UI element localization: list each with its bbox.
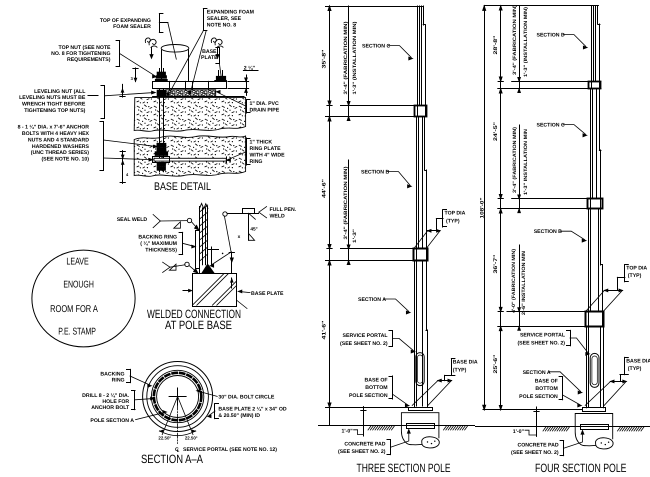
four section pole: top cap bbox=[591, 5, 598, 7]
grade hatch left of foundation bbox=[368, 426, 371, 430]
three section pole: section C shaft bbox=[417, 6, 419, 117]
svg-text:& 20.50" (MIN) ID: & 20.50" (MIN) ID bbox=[218, 413, 260, 419]
svg-text:1'-3": 1'-3" bbox=[352, 229, 358, 243]
svg-text:SECTION B: SECTION B bbox=[361, 170, 389, 176]
three section pole: service portal oval bbox=[416, 353, 424, 386]
leader: section A bbox=[385, 299, 409, 311]
leader: service portal bbox=[392, 331, 394, 346]
dimension line: section heights (three section pole) bbox=[329, 6, 331, 426]
leader: section B bbox=[388, 172, 411, 186]
leader: ring plate bbox=[246, 138, 248, 165]
leader: drain pipe bbox=[246, 100, 248, 114]
base detail: concrete upper band bbox=[134, 98, 245, 132]
three section pole: splice joint B-A bbox=[414, 249, 428, 261]
dimension: base plate thickness 2 1/4 in bbox=[228, 81, 249, 83]
leader: section A (four) bbox=[549, 372, 581, 392]
leader: anchor bolts bbox=[103, 122, 105, 171]
welded connection: base plate diagonal hatch bbox=[192, 274, 223, 305]
svg-text:POLE SECTION A: POLE SECTION A bbox=[90, 418, 134, 424]
section A-A: 22.5 degree wedge lines bbox=[162, 397, 177, 435]
welded connection: pole wall hatching bbox=[200, 205, 208, 212]
base detail: grout pad under base plate bbox=[166, 90, 216, 97]
three section pole: top cap bbox=[417, 6, 424, 8]
four section pole: base plate bbox=[583, 408, 606, 412]
svg-text:(SEE SHEET NO. 2): (SEE SHEET NO. 2) bbox=[517, 340, 565, 346]
weld symbol: seal weld upper callout bbox=[153, 215, 160, 222]
svg-text:BASE PLATE: BASE PLATE bbox=[251, 291, 284, 297]
svg-text:1'-3" INSTALLATION MIN: 1'-3" INSTALLATION MIN bbox=[523, 128, 529, 195]
svg-text:45°: 45° bbox=[250, 227, 257, 233]
svg-text:BASE OF: BASE OF bbox=[535, 378, 558, 384]
splice line B-A lower (four) bbox=[498, 326, 604, 328]
svg-text:BACKING RING: BACKING RING bbox=[138, 235, 177, 241]
four section pole: section B shaft bbox=[588, 209, 590, 327]
leader: drill holes bbox=[134, 391, 136, 410]
svg-text:44'-6": 44'-6" bbox=[321, 178, 327, 198]
svg-text:FULL PEN.: FULL PEN. bbox=[270, 207, 297, 213]
svg-text:POLE SECTION: POLE SECTION bbox=[519, 394, 558, 400]
svg-text:POLE SECTION: POLE SECTION bbox=[349, 393, 388, 399]
concrete pad bar (three section pole) bbox=[407, 424, 435, 429]
section A-A: base plate outer circle bbox=[143, 362, 213, 432]
base detail: expanding foam sealer squiggle left bbox=[145, 38, 157, 48]
welded connection: base plate slab bbox=[193, 274, 237, 307]
leader: concrete pad bbox=[390, 440, 392, 455]
svg-text:ANCHOR BOLT: ANCHOR BOLT bbox=[91, 405, 130, 411]
svg-text:22.50°: 22.50° bbox=[185, 436, 198, 441]
svg-text:BOTTOM: BOTTOM bbox=[535, 386, 557, 392]
leader: top nut bbox=[119, 41, 121, 66]
dimension: wall thickness ticks bbox=[208, 249, 219, 251]
four section pole: splice joint D-C bbox=[589, 82, 601, 89]
base detail: ring plate with washer block bbox=[154, 158, 226, 161]
extension line: pole top to dim lines bbox=[484, 5, 591, 7]
base detail: anchor bolt lower end bbox=[159, 162, 161, 171]
leader: bolt circle bbox=[198, 391, 217, 396]
svg-text:(SEE SHEET NO. 2): (SEE SHEET NO. 2) bbox=[340, 341, 388, 347]
svg-text:1" THICK: 1" THICK bbox=[250, 140, 273, 146]
leader: section D bbox=[563, 35, 586, 47]
weld symbol: full pen weld circle and leader bbox=[223, 212, 227, 216]
leader chevron: full pen weld bbox=[259, 207, 267, 213]
svg-text:SECTION A: SECTION A bbox=[523, 370, 551, 376]
leader: weld circle to joint bbox=[224, 216, 231, 252]
concrete pad bar (four section pole) bbox=[581, 425, 609, 430]
projection lines: base dia bbox=[412, 381, 438, 406]
dimension line: splice overlap B-A bbox=[348, 160, 350, 261]
base detail: left anchor bolt top nut bbox=[159, 69, 161, 75]
svg-text:24'-5": 24'-5" bbox=[493, 121, 499, 141]
svg-text:1'-3" (INSTALLATION MIN): 1'-3" (INSTALLATION MIN) bbox=[523, 7, 529, 77]
leader: expanding foam sealer (two arrows) bbox=[203, 9, 205, 31]
rock blob in foundation (four) bbox=[596, 438, 614, 449]
section A-A: backing ring dashed dark ring bbox=[154, 373, 201, 420]
svg-text:LEVELING NUTS MUST BE: LEVELING NUTS MUST BE bbox=[19, 95, 86, 101]
svg-text:35'-8": 35'-8" bbox=[321, 49, 327, 69]
svg-text:4'-0" (FABRICATION MIN): 4'-0" (FABRICATION MIN) bbox=[511, 249, 517, 313]
dimension line: splice overlap B-A (four) bbox=[519, 245, 521, 327]
svg-text:HARDENED WASHERS: HARDENED WASHERS bbox=[32, 144, 90, 150]
leader: base of bottom pole section bbox=[392, 376, 394, 399]
section A-A: pole wall circle inner bbox=[157, 376, 199, 418]
grade hatch right of foundation (four) bbox=[618, 427, 621, 431]
svg-text:3'-4" (FABRICATION MIN): 3'-4" (FABRICATION MIN) bbox=[512, 5, 518, 75]
leader: base plate bbox=[219, 48, 221, 64]
svg-text:CONCRETE PAD: CONCRETE PAD bbox=[517, 443, 558, 449]
base detail: anchor bolt rod with leveling nuts bbox=[159, 89, 161, 158]
svg-text:(SEE SHEET NO. 2): (SEE SHEET NO. 2) bbox=[511, 450, 559, 456]
grade hatch left of foundation (four) bbox=[543, 427, 546, 431]
svg-text:3'-4" (FABRICATION MIN): 3'-4" (FABRICATION MIN) bbox=[343, 166, 349, 240]
svg-text:P.E. STAMP: P.E. STAMP bbox=[58, 326, 96, 337]
projection lines: top dia (four) bbox=[586, 290, 605, 311]
four section pole: splice joint B-A bbox=[586, 312, 604, 327]
svg-text:(TYP): (TYP) bbox=[446, 218, 460, 224]
three section pole: section B shaft bbox=[416, 117, 418, 261]
four section pole: section C shaft bbox=[590, 89, 592, 209]
svg-text:(SEE NOTE NO. 10): (SEE NOTE NO. 10) bbox=[41, 157, 89, 163]
svg-text:REQUIREMENTS): REQUIREMENTS) bbox=[67, 57, 111, 63]
svg-text:1'-0": 1'-0" bbox=[513, 429, 525, 435]
svg-text:FOUR SECTION POLE: FOUR SECTION POLE bbox=[535, 461, 627, 475]
svg-text:AT POLE BASE: AT POLE BASE bbox=[165, 318, 232, 332]
welded connection: full penetration weld (filled) bbox=[202, 264, 214, 273]
svg-text:WELD: WELD bbox=[270, 214, 286, 220]
svg-text:CONCRETE PAD: CONCRETE PAD bbox=[344, 442, 385, 448]
svg-text:ENOUGH: ENOUGH bbox=[63, 280, 94, 291]
splice line D-C upper bbox=[512, 81, 601, 83]
leader: base plate size bbox=[214, 404, 216, 419]
svg-text:BASE DETAIL: BASE DETAIL bbox=[154, 181, 211, 193]
splice line B-A upper bbox=[341, 248, 428, 250]
svg-text:22.50°: 22.50° bbox=[158, 436, 171, 441]
extension line: base of pole level bbox=[326, 407, 410, 409]
svg-text:4: 4 bbox=[126, 172, 129, 177]
section A-A: center cross bbox=[169, 396, 186, 398]
svg-text:SEALER, SEE: SEALER, SEE bbox=[207, 16, 242, 22]
P.E. stamp circle bbox=[32, 250, 135, 347]
leader and dim: base dia (four) bbox=[624, 357, 626, 374]
ground line at four section pole bbox=[476, 426, 650, 428]
svg-text:( ¼" MAXIMUM: ( ¼" MAXIMUM bbox=[140, 241, 177, 247]
three section pole: base plate bbox=[409, 408, 433, 411]
splice line D-C lower bbox=[498, 88, 601, 90]
base detail: expanding foam sealer squiggle right bbox=[211, 38, 223, 48]
dimension: weld height arrow bbox=[231, 252, 233, 274]
svg-text:41'-6": 41'-6" bbox=[321, 320, 327, 340]
svg-text:108'-0": 108'-0" bbox=[479, 197, 485, 219]
base detail: foam sealer arrow right bbox=[217, 48, 219, 55]
svg-text:NOTE NO. 8: NOTE NO. 8 bbox=[207, 23, 237, 29]
dimension line: overall height (four section pole) bbox=[484, 6, 486, 410]
section A-A: service portal centerline (dashed) bbox=[177, 405, 179, 444]
svg-text:WITH 4" WIDE: WITH 4" WIDE bbox=[250, 152, 286, 158]
svg-text:(UNC THREAD SERIES): (UNC THREAD SERIES) bbox=[31, 150, 89, 156]
svg-text:SECTION B: SECTION B bbox=[534, 229, 562, 235]
svg-text:HOLE FOR: HOLE FOR bbox=[102, 399, 129, 405]
svg-text:THREE SECTION POLE: THREE SECTION POLE bbox=[357, 461, 451, 475]
welded connection: pole wall plates bbox=[199, 207, 201, 274]
leader and dim: top dia (four) bbox=[624, 265, 626, 282]
dimension line: splice overlap D-C bbox=[519, 6, 521, 89]
extension line: base of pole level (four) bbox=[483, 409, 582, 411]
svg-text:8 - 1 ¼" DIA. x 7'-6" ANCHOR: 8 - 1 ¼" DIA. x 7'-6" ANCHOR bbox=[18, 125, 90, 131]
svg-text:36'-7": 36'-7" bbox=[493, 254, 499, 274]
leader: concrete pad (four) bbox=[563, 441, 565, 456]
svg-text:LEVELING NUT (ALL: LEVELING NUT (ALL bbox=[34, 89, 86, 95]
svg-text:RING: RING bbox=[250, 159, 263, 165]
four section pole: splice joint C-B bbox=[588, 199, 603, 209]
svg-text:(TYP): (TYP) bbox=[628, 366, 642, 372]
leader: backing ring bbox=[182, 232, 184, 254]
svg-text:(TYP): (TYP) bbox=[628, 273, 642, 279]
splice line C-B lower bbox=[326, 116, 427, 118]
svg-text:30" DIA. BOLT CIRCLE: 30" DIA. BOLT CIRCLE bbox=[218, 395, 275, 401]
svg-text:RING: RING bbox=[112, 378, 125, 384]
svg-text:TOP DIA: TOP DIA bbox=[626, 265, 647, 271]
svg-text:BOTTOM: BOTTOM bbox=[365, 385, 387, 391]
dimension line: section heights (four section pole) bbox=[500, 6, 502, 410]
svg-text:LEAVE: LEAVE bbox=[66, 256, 89, 267]
svg-text:x: x bbox=[238, 235, 241, 240]
svg-text:SEAL WELD: SEAL WELD bbox=[117, 217, 148, 223]
svg-text:TIGHTENING TOP NUTS): TIGHTENING TOP NUTS) bbox=[24, 108, 85, 114]
svg-text:EXPANDING FOAM: EXPANDING FOAM bbox=[207, 10, 254, 16]
dimension line: splice overlap C-B (four) bbox=[519, 125, 521, 209]
leader and dim: top dia bbox=[442, 210, 444, 227]
leader: leveling nut bbox=[104, 86, 106, 119]
three section pole: section A shaft bbox=[414, 261, 416, 408]
foundation outline (four section pole) bbox=[575, 414, 613, 446]
svg-text:THICKNESS): THICKNESS) bbox=[145, 247, 177, 253]
svg-text:NO. 8 FOR TIGHTENING: NO. 8 FOR TIGHTENING bbox=[51, 51, 110, 57]
svg-text:BASE OF: BASE OF bbox=[365, 378, 388, 384]
foundation outline (three section pole) bbox=[401, 413, 439, 445]
four section pole: service portal oval bbox=[590, 353, 599, 387]
base detail: foam sealer arrow left bbox=[151, 48, 153, 55]
dimension: ring plate small arrows bbox=[122, 151, 124, 184]
dimension: grout thickness small arrows bbox=[135, 68, 137, 81]
extension ticks at plate bottom bbox=[237, 301, 247, 309]
svg-text:WRENCH TIGHT BEFORE: WRENCH TIGHT BEFORE bbox=[22, 102, 86, 108]
welded connection: backing ring bar bbox=[196, 231, 200, 269]
leader: section B (four) bbox=[560, 231, 584, 239]
svg-text:SECTION A: SECTION A bbox=[358, 297, 386, 303]
svg-text:BASE PLATE 2 ¼" x 34" OD: BASE PLATE 2 ¼" x 34" OD bbox=[218, 406, 286, 412]
dimension line: splice overlap C-B bbox=[348, 6, 350, 117]
section A-A: angle arc bbox=[160, 431, 196, 436]
section A-A: ring plate circle bbox=[147, 366, 209, 428]
svg-text:PLATE: PLATE bbox=[201, 55, 218, 61]
svg-text:DRAIN PIPE: DRAIN PIPE bbox=[250, 108, 280, 114]
svg-text:ROOM FOR A: ROOM FOR A bbox=[50, 304, 98, 315]
leader: top of foam sealer bbox=[159, 14, 161, 33]
projection lines: top dia bbox=[414, 231, 428, 249]
svg-text:BACKING: BACKING bbox=[100, 371, 124, 377]
leader: section C bbox=[389, 46, 412, 58]
dimension: plate thickness tick below bbox=[231, 278, 233, 288]
svg-text:1'-0": 1'-0" bbox=[341, 428, 353, 434]
projection lines: base dia (four) bbox=[585, 381, 610, 405]
svg-text:3: 3 bbox=[131, 76, 134, 81]
svg-text:SERVICE PORTAL: SERVICE PORTAL bbox=[343, 333, 389, 339]
welded connection: pole wall break line (jagged top) bbox=[199, 203, 208, 208]
four section pole: section A shaft bbox=[586, 327, 588, 408]
base detail: concrete lower band bbox=[134, 136, 245, 177]
leader and dim: base dia bbox=[451, 359, 453, 375]
svg-text:1" DIA. PVC: 1" DIA. PVC bbox=[250, 101, 280, 107]
svg-text:1'-3" (INSTALLATION MIN): 1'-3" (INSTALLATION MIN) bbox=[352, 21, 358, 94]
svg-text:FOAM SEALER: FOAM SEALER bbox=[113, 24, 151, 30]
svg-text:(TYP): (TYP) bbox=[453, 368, 467, 374]
splice line C-B upper bbox=[341, 105, 427, 107]
leader: section C (four) bbox=[563, 125, 585, 135]
svg-text:DRILL 8 - 2 ¼" DIA.: DRILL 8 - 2 ¼" DIA. bbox=[82, 393, 130, 399]
leader: base of bottom pole section (four) bbox=[562, 377, 564, 400]
rock blob in foundation bbox=[422, 437, 440, 448]
svg-text:BASE DIA: BASE DIA bbox=[453, 359, 478, 365]
base detail: base plate bbox=[153, 82, 227, 89]
svg-text:(SEE SHEET NO. 2): (SEE SHEET NO. 2) bbox=[338, 449, 386, 455]
svg-text:3'-4" (FABRICATION MIN): 3'-4" (FABRICATION MIN) bbox=[512, 127, 518, 193]
three section pole: splice joint C-B bbox=[415, 106, 427, 117]
svg-text:BOLTS WITH 4 HEAVY HEX: BOLTS WITH 4 HEAVY HEX bbox=[22, 131, 90, 137]
svg-text:25'-6": 25'-6" bbox=[493, 354, 499, 374]
leader: service portal (four) bbox=[570, 330, 572, 345]
svg-text:RING PLATE: RING PLATE bbox=[250, 146, 282, 152]
svg-text:2'-6" INSTALLATION MIN: 2'-6" INSTALLATION MIN bbox=[521, 250, 527, 315]
svg-text:TOP NUT (SEE NOTE: TOP NUT (SEE NOTE bbox=[59, 45, 112, 51]
ground line at three section pole bbox=[319, 425, 475, 427]
leader: backing ring section A-A bbox=[130, 369, 132, 382]
svg-text:SECTION A–A: SECTION A–A bbox=[141, 452, 203, 466]
base detail: right anchor bolt top nut bbox=[218, 71, 220, 78]
extension line: pole top to dim line bbox=[326, 6, 417, 8]
four section pole: section D shaft bbox=[591, 6, 593, 89]
leader: base plate weld detail bbox=[240, 292, 250, 293]
svg-text:SECTION D: SECTION D bbox=[537, 33, 565, 39]
svg-text:NUTS AND 4 STANDARD: NUTS AND 4 STANDARD bbox=[28, 137, 89, 143]
section A-A: pole wall circle outer bbox=[151, 370, 203, 422]
svg-text:28'-8": 28'-8" bbox=[493, 35, 499, 55]
svg-text:3'-4" (FABRICATION MIN): 3'-4" (FABRICATION MIN) bbox=[343, 21, 349, 95]
weld symbol: seal weld lower callout bbox=[163, 262, 170, 267]
svg-text:TOP DIA: TOP DIA bbox=[445, 211, 466, 217]
svg-text:SERVICE PORTAL: SERVICE PORTAL bbox=[520, 333, 566, 339]
svg-text:SECTION C: SECTION C bbox=[362, 44, 390, 50]
svg-text:BASE DIA: BASE DIA bbox=[626, 358, 650, 364]
base detail: pole shaft cylinder bbox=[161, 50, 163, 81]
splice line C-B upper (four) bbox=[512, 198, 602, 200]
leader: pole section A bbox=[136, 412, 165, 419]
svg-text:SECTION C: SECTION C bbox=[537, 123, 565, 129]
grade hatch right of foundation bbox=[444, 426, 447, 430]
splice line B-A upper (four) bbox=[507, 311, 603, 313]
splice line C-B lower (four) bbox=[498, 208, 602, 210]
splice line B-A lower bbox=[326, 260, 428, 262]
